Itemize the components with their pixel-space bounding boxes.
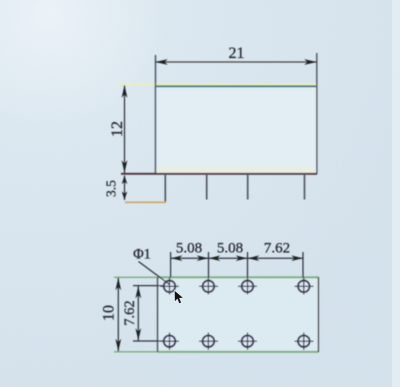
hole B1 bbox=[160, 333, 179, 350]
dimension 10 text bbox=[101, 305, 118, 321]
body bottom edge with left extension bbox=[121, 173, 317, 175]
hole diameter label Φ1 bbox=[133, 247, 151, 263]
hole A4 bbox=[295, 278, 314, 295]
svg-text:5.08: 5.08 bbox=[217, 241, 243, 257]
extension lines for dimension 10 bbox=[114, 277, 157, 352]
pitch text 7.62 bbox=[264, 241, 290, 257]
hole A3 bbox=[238, 278, 257, 295]
yellow fringe above body top edge bbox=[117, 83, 317, 85]
svg-text:10: 10 bbox=[101, 305, 118, 321]
relay body (side view) fill bbox=[155, 86, 317, 174]
dimension 21 text bbox=[229, 45, 245, 62]
pitch text 5.08 first bbox=[176, 241, 202, 257]
pitch dimension line bbox=[171, 255, 303, 261]
pin 4 bbox=[304, 174, 306, 200]
svg-text:3.5: 3.5 bbox=[104, 180, 119, 197]
hole B2 bbox=[199, 333, 218, 350]
svg-text:12: 12 bbox=[109, 121, 126, 137]
pin 2 bbox=[206, 174, 208, 200]
pitch text 5.08 second bbox=[217, 241, 243, 257]
dimension 10 line bbox=[115, 278, 121, 352]
hole A2 bbox=[199, 278, 218, 295]
leader line from Φ1 to hole A1 bbox=[139, 262, 170, 285]
extension lines for pitch dimensions bbox=[171, 252, 303, 278]
body left edge bbox=[155, 55, 157, 174]
svg-text:7.62: 7.62 bbox=[264, 241, 290, 257]
hole B4 bbox=[295, 333, 314, 350]
body right edge / extension line bbox=[316, 53, 318, 174]
pin1 bottom yellow tie line bbox=[125, 201, 166, 203]
hole A1 bbox=[160, 278, 179, 295]
footprint rectangle (bottom view) bbox=[158, 277, 319, 352]
svg-text:7.62: 7.62 bbox=[122, 300, 138, 325]
dimension 3.5 line bbox=[122, 176, 128, 201]
dimension 12 line bbox=[122, 85, 128, 173]
svg-text:Φ1: Φ1 bbox=[133, 247, 151, 263]
dimension 7.62 vertical line bbox=[135, 286, 141, 341]
svg-text:21: 21 bbox=[229, 45, 245, 62]
dimension 12 text bbox=[109, 121, 126, 137]
mouse cursor bbox=[174, 290, 183, 303]
svg-text:5.08: 5.08 bbox=[176, 241, 202, 257]
pin 1 bbox=[164, 174, 166, 202]
extension lines for vertical 7.62 bbox=[133, 286, 164, 341]
dimension 7.62 vertical text bbox=[122, 300, 138, 325]
dimension 3.5 text bbox=[104, 180, 119, 197]
hole B3 bbox=[238, 333, 257, 350]
pin 3 bbox=[247, 174, 249, 200]
body top edge bbox=[155, 85, 317, 87]
dimension 21 line bbox=[155, 59, 317, 65]
